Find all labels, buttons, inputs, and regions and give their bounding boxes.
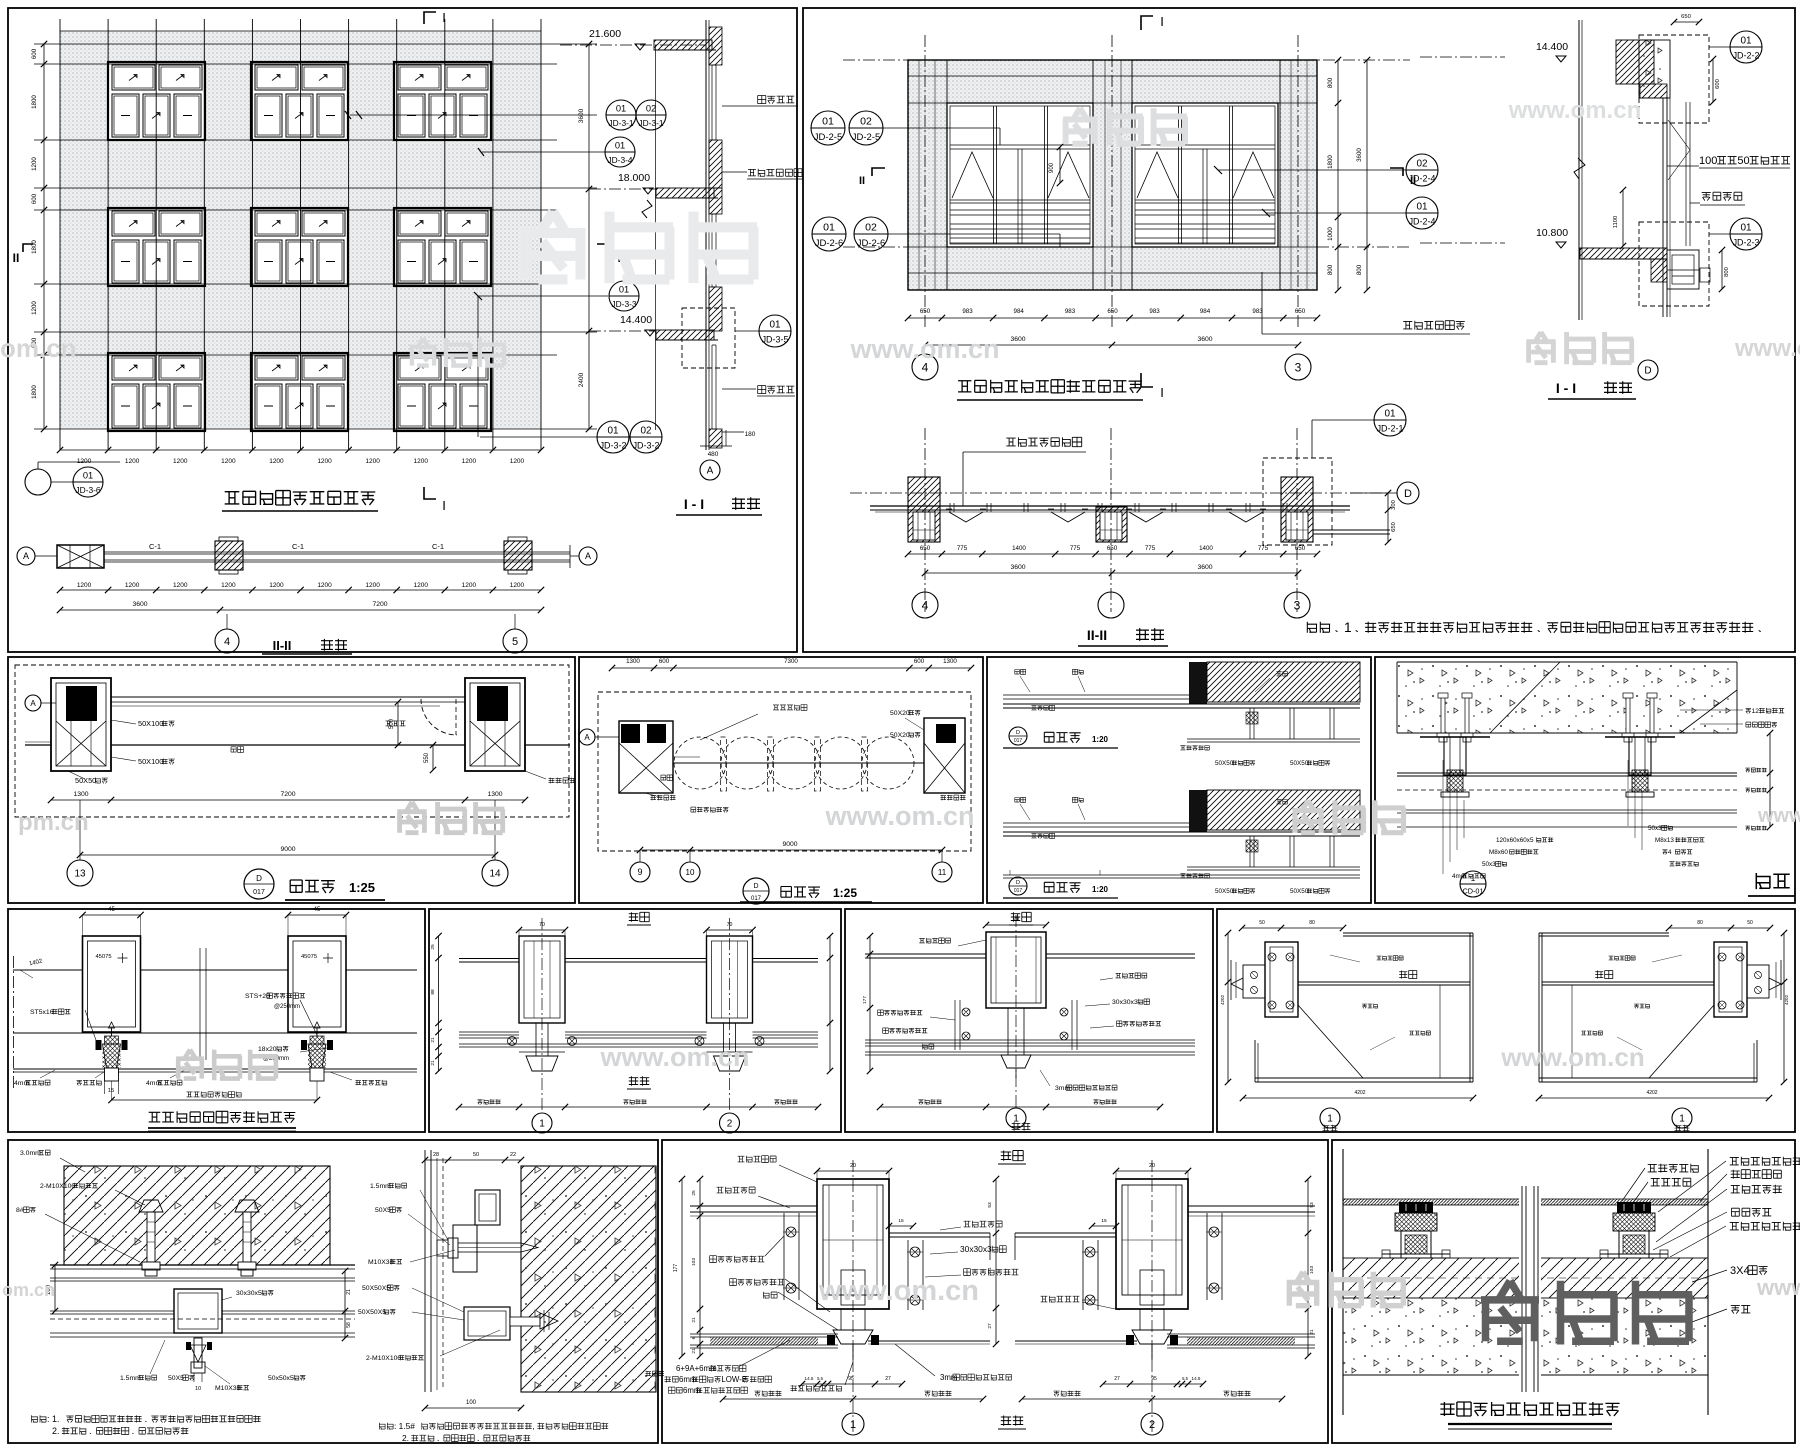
svg-text:50X50: 50X50: [75, 776, 96, 785]
r2p2 column assemblies: [619, 721, 673, 793]
svg-text:1: 1: [1679, 1114, 1685, 1125]
svg-text:: 1.: : 1.: [47, 1414, 59, 1424]
svg-text:www.om.cn: www.om.cn: [1500, 1042, 1645, 1072]
svg-text:7200: 7200: [280, 791, 295, 798]
svg-text:27: 27: [885, 1376, 891, 1382]
svg-text:10: 10: [686, 868, 695, 877]
svg-text:50x50x5: 50x50x5: [268, 1375, 294, 1382]
r2p1 dashed boundary: [15, 665, 569, 817]
svg-text:M10X30: M10X30: [368, 1259, 394, 1266]
svg-text:14.5: 14.5: [805, 1376, 814, 1381]
panelB window groups: [947, 103, 1093, 247]
svg-text:017: 017: [1014, 738, 1023, 744]
svg-text:100: 100: [466, 1400, 477, 1406]
svg-text:600: 600: [1715, 79, 1721, 89]
svg-text:1: 1: [539, 1119, 545, 1130]
svg-text:1:25: 1:25: [349, 880, 375, 895]
svg-text:50X100: 50X100: [138, 757, 163, 766]
svg-text:C-1: C-1: [149, 542, 161, 551]
panelB axis lines: [843, 35, 1410, 330]
svg-text:M10X30: M10X30: [215, 1385, 241, 1392]
svg-text:1:25: 1:25: [833, 886, 857, 900]
svg-text:@250mm: @250mm: [274, 1004, 300, 1010]
svg-text:D: D: [256, 874, 262, 883]
svg-text:A: A: [30, 699, 36, 708]
svg-text:I - I: I - I: [684, 496, 704, 512]
svg-text:650: 650: [1295, 308, 1306, 315]
svg-text:017: 017: [751, 896, 762, 902]
svg-text:www.om.cn: www.om.cn: [849, 334, 999, 364]
svg-text:1200: 1200: [31, 157, 38, 171]
svg-text:480: 480: [708, 451, 719, 458]
svg-text:18.000: 18.000: [618, 172, 650, 184]
svg-text:650: 650: [920, 545, 931, 552]
svg-text:D: D: [1016, 730, 1020, 736]
r4p3 anchor assembly: [1399, 1202, 1433, 1213]
svg-text:1200: 1200: [173, 582, 188, 589]
svg-text:3600: 3600: [132, 601, 147, 608]
svg-text:80: 80: [1309, 920, 1315, 926]
svg-text:02: 02: [646, 104, 656, 114]
r2p3 detail 1: [1189, 662, 1207, 704]
svg-text:1200: 1200: [510, 458, 525, 465]
svg-text:02: 02: [640, 425, 652, 436]
svg-text:D: D: [1404, 488, 1412, 500]
svg-text:01: 01: [619, 285, 629, 295]
svg-text:3: 3: [1294, 598, 1301, 612]
svg-text:8#: 8#: [16, 1207, 24, 1214]
svg-text:9: 9: [637, 867, 642, 877]
svg-text:12: 12: [1752, 708, 1760, 715]
svg-text:7300: 7300: [784, 658, 798, 665]
panelA window clusters: [108, 62, 205, 140]
svg-text:180: 180: [745, 431, 756, 438]
svg-text:01: 01: [83, 471, 93, 481]
r2p1 beam and wall lines: [111, 696, 465, 698]
svg-text:www.o: www.o: [1757, 805, 1800, 827]
svg-text:120x60x60x5: 120x60x60x5: [1496, 837, 1534, 844]
panelA elevation wall stipple: [60, 31, 541, 429]
svg-text:650: 650: [1107, 308, 1118, 315]
svg-text:100: 100: [1699, 155, 1717, 167]
svg-text:3X4: 3X4: [1730, 1265, 1750, 1277]
svg-text:21: 21: [1309, 1329, 1315, 1335]
panelB I-I section right: [1616, 40, 1654, 84]
svg-text:CD-01: CD-01: [1463, 886, 1484, 895]
r4p3 base concrete: [1343, 1298, 1708, 1375]
svg-text:1.5mm: 1.5mm: [370, 1183, 391, 1190]
svg-text:II: II: [1410, 175, 1416, 187]
svg-text:1200: 1200: [269, 582, 284, 589]
svg-text:50x3: 50x3: [1482, 861, 1496, 868]
svg-text:01: 01: [607, 425, 619, 436]
svg-text:2.: 2.: [402, 1433, 409, 1443]
svg-text:50X50: 50X50: [1215, 760, 1234, 767]
r3p2 headers: [629, 912, 649, 1085]
svg-text:650: 650: [1391, 522, 1397, 532]
svg-text:1200: 1200: [173, 458, 188, 465]
svg-text:01: 01: [822, 115, 834, 127]
svg-text:I: I: [442, 498, 446, 513]
svg-text:1200: 1200: [365, 582, 380, 589]
svg-text:2: 2: [727, 1119, 733, 1130]
svg-text:775: 775: [1145, 545, 1156, 552]
r3p1 watermark: [176, 1050, 277, 1081]
svg-text:om.cn: om.cn: [0, 333, 77, 363]
panel borders: [8, 8, 797, 652]
svg-text:1300: 1300: [487, 791, 502, 798]
svg-text:01: 01: [769, 319, 781, 330]
panelB elevation wall lines: [908, 60, 1317, 290]
svg-text:1:20: 1:20: [1092, 885, 1109, 894]
svg-text:01: 01: [1416, 201, 1428, 212]
panelA II-II plan strip: [57, 545, 104, 568]
svg-text:7200: 7200: [372, 601, 387, 608]
svg-text:50X50: 50X50: [1290, 760, 1309, 767]
svg-text:JD-3-1: JD-3-1: [608, 118, 633, 128]
r2p3 detail 2: [1189, 790, 1207, 832]
svg-text:10: 10: [195, 1386, 201, 1392]
svg-text:JD-3-4: JD-3-4: [607, 155, 632, 165]
svg-text:I: I: [1160, 14, 1164, 29]
panelA leaders and bubbles: [606, 100, 636, 130]
svg-text:80: 80: [1697, 920, 1703, 926]
svg-text:,: ,: [532, 1421, 534, 1431]
svg-text:1200: 1200: [221, 458, 236, 465]
svg-text:3600: 3600: [1197, 564, 1212, 571]
svg-text:1300: 1300: [73, 791, 88, 798]
svg-text:14.5: 14.5: [1192, 1376, 1201, 1381]
svg-text:1100: 1100: [1613, 216, 1619, 228]
r4p3 anchor assembly: [1617, 1202, 1651, 1213]
svg-text:JD-2-5: JD-2-5: [852, 132, 881, 143]
r2p2 A bubble: [579, 729, 595, 745]
svg-text:50: 50: [1259, 920, 1265, 926]
svg-text:www.om.cn: www.om.cn: [818, 1275, 979, 1307]
r4p1 left bottom anchor: [194, 1338, 202, 1368]
r2p4 hanger assembly: [1626, 697, 1630, 733]
svg-text:53: 53: [987, 1202, 993, 1208]
svg-text:10.800: 10.800: [1536, 227, 1568, 239]
svg-text:22: 22: [510, 1152, 516, 1158]
svg-text:18x20: 18x20: [258, 1046, 277, 1053]
svg-text:01: 01: [1740, 35, 1752, 46]
svg-text:1800: 1800: [31, 385, 38, 399]
svg-text:D: D: [1644, 366, 1651, 377]
svg-text:30x30x3: 30x30x3: [960, 1244, 992, 1254]
svg-text:A: A: [585, 551, 591, 561]
svg-text:14.400: 14.400: [620, 314, 652, 326]
svg-text:II: II: [859, 175, 865, 187]
svg-text:27: 27: [1114, 1376, 1120, 1382]
svg-text:1200: 1200: [365, 458, 380, 465]
svg-text:21: 21: [691, 1348, 697, 1354]
svg-text:800: 800: [1356, 264, 1363, 275]
svg-text:3600: 3600: [1010, 564, 1025, 571]
svg-text:21.600: 21.600: [589, 28, 621, 40]
svg-text:II-II: II-II: [1087, 627, 1107, 643]
svg-text:01: 01: [616, 104, 626, 114]
svg-text:5.5: 5.5: [1182, 1376, 1188, 1381]
svg-text:3: 3: [1295, 360, 1302, 374]
svg-text:4202: 4202: [1220, 994, 1225, 1005]
svg-text:1200: 1200: [77, 458, 92, 465]
svg-text:775: 775: [957, 545, 968, 552]
svg-text:103: 103: [691, 1258, 697, 1266]
svg-text:25: 25: [430, 944, 436, 950]
svg-text:600: 600: [31, 193, 38, 204]
svg-text:50: 50: [1747, 920, 1753, 926]
svg-text:984: 984: [1200, 308, 1211, 315]
svg-text:I: I: [442, 10, 446, 25]
svg-text:4202: 4202: [1646, 1090, 1657, 1096]
svg-text:600: 600: [31, 48, 38, 59]
svg-text:C-1: C-1: [292, 542, 304, 551]
svg-text:45: 45: [108, 906, 115, 913]
svg-text:4202: 4202: [1354, 1090, 1365, 1096]
svg-text:1200: 1200: [462, 458, 477, 465]
svg-text:21: 21: [430, 1060, 436, 1066]
svg-text:STS+20: STS+20: [245, 993, 270, 1000]
svg-text:2400: 2400: [578, 372, 585, 387]
r2p2 title: [743, 878, 769, 904]
svg-text:21: 21: [691, 1317, 697, 1323]
r4p1 left concrete: [64, 1166, 330, 1265]
svg-text:3600: 3600: [1197, 336, 1212, 343]
svg-text:50X50: 50X50: [1215, 888, 1234, 895]
svg-text:M8x13: M8x13: [1655, 837, 1674, 844]
svg-text:1: 1: [1344, 620, 1352, 635]
svg-text:45075: 45075: [301, 954, 317, 960]
svg-text:50X20: 50X20: [890, 732, 910, 739]
svg-text:1200: 1200: [125, 458, 140, 465]
svg-text:JD-3-6: JD-3-6: [75, 485, 100, 495]
svg-text:88: 88: [430, 989, 436, 995]
svg-text:1200: 1200: [77, 582, 92, 589]
panelB II-II plan: [908, 477, 940, 542]
svg-text:5: 5: [512, 636, 518, 648]
svg-text:177: 177: [862, 996, 868, 1004]
svg-text:9000: 9000: [280, 846, 295, 853]
svg-text:45075: 45075: [95, 954, 111, 960]
svg-text:1300: 1300: [626, 658, 640, 665]
svg-text:JD-2-4: JD-2-4: [1409, 217, 1436, 227]
svg-text:15: 15: [108, 1088, 114, 1094]
svg-text:58: 58: [346, 1322, 352, 1328]
svg-text:1200: 1200: [269, 458, 284, 465]
svg-text:1800: 1800: [31, 95, 38, 109]
svg-text:50X100: 50X100: [138, 719, 163, 728]
r2p3 titles: [1009, 727, 1027, 745]
svg-text:1200: 1200: [462, 582, 477, 589]
panelB left bubbles: [811, 111, 845, 145]
svg-text:1200: 1200: [221, 582, 236, 589]
r4p3 big watermark: [1481, 1281, 1692, 1345]
svg-text:650: 650: [920, 308, 931, 315]
svg-text:3600: 3600: [1010, 336, 1025, 343]
svg-text:JD-3-2: JD-3-2: [633, 441, 660, 451]
svg-text:21: 21: [987, 1267, 993, 1273]
svg-text:01: 01: [615, 141, 625, 151]
svg-text:50X50X5: 50X50X5: [358, 1309, 386, 1316]
svg-text:D: D: [753, 883, 758, 890]
svg-text:4202: 4202: [1784, 994, 1789, 1005]
svg-text:650: 650: [1295, 545, 1306, 552]
svg-text:JD-2-2: JD-2-2: [1733, 51, 1760, 61]
panelB labels: [1374, 404, 1406, 436]
svg-text:A: A: [584, 733, 590, 742]
svg-text:4: 4: [224, 636, 230, 648]
svg-text:15: 15: [1101, 1218, 1107, 1224]
svg-text:I: I: [1160, 385, 1164, 400]
svg-text:30x30x5: 30x30x5: [236, 1290, 262, 1297]
svg-text:1200: 1200: [317, 458, 332, 465]
svg-text:21: 21: [346, 1289, 352, 1295]
svg-text:A: A: [23, 551, 29, 561]
svg-text:650: 650: [1681, 14, 1691, 20]
svg-text:JD-3-5: JD-3-5: [762, 335, 789, 345]
svg-text:1800: 1800: [31, 240, 38, 254]
svg-text:25: 25: [691, 1190, 697, 1196]
r4p1 left panel lines: [174, 1289, 222, 1333]
svg-text:M8x60: M8x60: [1489, 849, 1508, 856]
svg-text:www.om.cn: www.om.cn: [599, 1042, 749, 1072]
svg-text:1400: 1400: [1012, 545, 1026, 552]
r4p1 right detail: [521, 1166, 656, 1392]
r2p1 title: [244, 869, 274, 899]
r2p1 column boxes: [51, 678, 111, 771]
svg-text:www.om.cn: www.om.cn: [1508, 97, 1641, 124]
svg-text:3.0mm: 3.0mm: [20, 1150, 41, 1157]
svg-text:50: 50: [473, 1152, 479, 1158]
svg-text:ST5x16: ST5x16: [30, 1009, 54, 1016]
r3p2 beams and glass: [459, 959, 818, 963]
svg-text:13: 13: [74, 869, 86, 880]
svg-text:14.400: 14.400: [1536, 41, 1568, 53]
svg-text:01: 01: [823, 221, 835, 233]
svg-text:: 1.5#: : 1.5#: [394, 1421, 415, 1431]
svg-text:2-M10X100: 2-M10X100: [366, 1355, 401, 1362]
svg-text:1200: 1200: [510, 582, 525, 589]
svg-text:50x3: 50x3: [1648, 825, 1662, 832]
svg-text:11: 11: [938, 868, 947, 877]
svg-text:50X50X5: 50X50X5: [362, 1285, 390, 1292]
panelA I-I section: [709, 27, 722, 65]
svg-text:50X5: 50X5: [375, 1207, 391, 1214]
svg-text:JD-2-6: JD-2-6: [857, 238, 886, 249]
svg-text:1300: 1300: [943, 658, 957, 665]
svg-text:1200: 1200: [31, 301, 38, 315]
svg-text:103: 103: [1309, 1266, 1315, 1274]
svg-text:JD-3-1: JD-3-1: [638, 118, 663, 128]
svg-text:02: 02: [1416, 158, 1428, 169]
svg-text:01: 01: [1740, 222, 1752, 233]
svg-text:3600: 3600: [1356, 148, 1363, 162]
svg-text:300: 300: [1391, 500, 1397, 510]
svg-text:1200: 1200: [414, 582, 429, 589]
svg-text:900: 900: [1049, 162, 1055, 173]
svg-text:27: 27: [987, 1323, 993, 1329]
svg-text:1: 1: [1327, 1114, 1333, 1125]
panelB right bubbles: [1406, 154, 1438, 186]
svg-text:50X20: 50X20: [890, 710, 910, 717]
svg-text:01: 01: [1384, 408, 1396, 419]
r2p2 grille arcs: [674, 737, 726, 789]
svg-text:I - I: I - I: [1556, 380, 1576, 396]
svg-text:1:20: 1:20: [1092, 735, 1109, 744]
svg-text:550: 550: [424, 752, 430, 763]
r2p4 hanger assembly: [1441, 697, 1445, 733]
panelB elevation stipple: [908, 60, 1317, 103]
svg-text:JD-3-2: JD-3-2: [600, 441, 627, 451]
r4p3 title: [1440, 1402, 1619, 1416]
svg-text:JD-3-3: JD-3-3: [611, 299, 636, 309]
svg-text:1000: 1000: [1327, 227, 1334, 241]
svg-text:02: 02: [865, 221, 877, 233]
svg-text:4: 4: [922, 598, 929, 612]
svg-text:JD-2-3: JD-2-3: [1733, 238, 1760, 248]
svg-text:45: 45: [314, 906, 321, 913]
svg-text:1400: 1400: [1199, 545, 1213, 552]
svg-text:600: 600: [914, 658, 925, 665]
svg-text:50: 50: [1737, 155, 1749, 167]
svg-text:pm.cn: pm.cn: [18, 809, 89, 836]
svg-text:2-M10X100: 2-M10X100: [40, 1183, 75, 1190]
svg-text:JD-2-1: JD-2-1: [1377, 424, 1404, 434]
svg-text:2.: 2.: [52, 1426, 59, 1436]
r3p1 mullion plans: [83, 936, 141, 1032]
svg-text:www.om: www.om: [1734, 335, 1800, 362]
svg-text:II-II: II-II: [273, 638, 292, 653]
svg-text:983: 983: [1149, 308, 1160, 315]
svg-text:9000: 9000: [782, 841, 797, 848]
r2p2 dashed boundary: [598, 692, 971, 851]
svg-text:1200: 1200: [125, 582, 140, 589]
svg-text:4: 4: [1668, 849, 1672, 856]
svg-text:JD-2-5: JD-2-5: [814, 132, 843, 143]
panelA title: [225, 491, 376, 505]
svg-text:om.cn: om.cn: [2, 1280, 55, 1300]
svg-text:LOW-E: LOW-E: [721, 1375, 747, 1384]
svg-text:775: 775: [1070, 545, 1081, 552]
svg-text:1800: 1800: [1327, 155, 1334, 169]
svg-text:www.om.cn: www.om.cn: [824, 801, 974, 831]
svg-text:02: 02: [860, 115, 872, 127]
svg-text:800: 800: [1327, 264, 1334, 275]
svg-text:www.: www.: [1756, 1275, 1800, 1300]
svg-text:3600: 3600: [578, 108, 585, 123]
svg-text:017: 017: [253, 889, 265, 896]
svg-text:C-1: C-1: [432, 542, 444, 551]
svg-text:177: 177: [673, 1264, 679, 1273]
svg-text:50X5: 50X5: [168, 1375, 184, 1382]
svg-text:14: 14: [489, 869, 501, 880]
svg-text:984: 984: [1014, 308, 1025, 315]
svg-text:775: 775: [1258, 545, 1269, 552]
svg-text:600: 600: [659, 658, 670, 665]
svg-text:800: 800: [1327, 77, 1334, 88]
svg-text:1.5mm: 1.5mm: [120, 1375, 141, 1382]
svg-text:983: 983: [1065, 308, 1076, 315]
panelB title: [958, 380, 1142, 393]
svg-text:1200: 1200: [414, 458, 429, 465]
r4p3 frame lines: [1343, 1199, 1708, 1205]
svg-text:II: II: [13, 251, 20, 265]
svg-text:30x30x3: 30x30x3: [1112, 999, 1138, 1006]
r4p2 headers: [1001, 1151, 1023, 1426]
svg-text:21: 21: [430, 1037, 436, 1043]
svg-text:017: 017: [1014, 888, 1023, 894]
